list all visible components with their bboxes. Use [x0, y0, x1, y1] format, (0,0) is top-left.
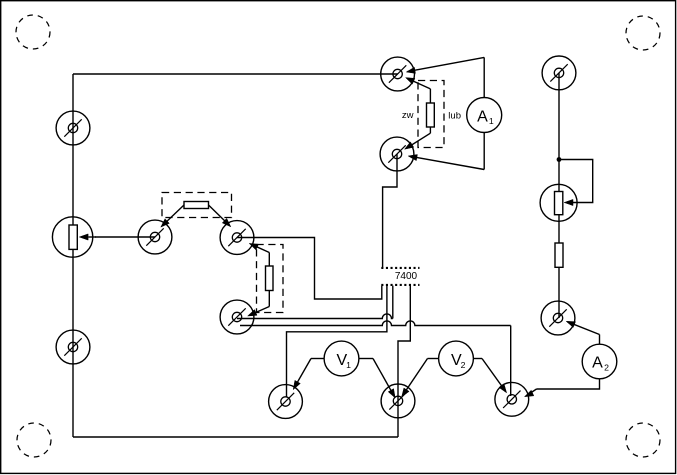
terminal J3: [138, 220, 172, 254]
resistor R1 (jumper): [184, 202, 209, 209]
resistor R3 zw: [427, 103, 435, 127]
svg-text:2: 2: [461, 360, 466, 370]
wire bottom bus: [73, 436, 398, 438]
trapezoid bottom line: [408, 155, 484, 170]
wire V1 right: [359, 359, 395, 398]
trapezoid right upper: [483, 57, 485, 97]
terminal J4: [220, 221, 254, 255]
mounting hole top-left: [16, 15, 50, 49]
wire V2 left: [402, 359, 439, 398]
resistor R2: [266, 266, 274, 291]
wire top bus: [73, 73, 398, 75]
lead R2 top: [249, 243, 269, 266]
svg-text:7400: 7400: [395, 271, 418, 282]
wire IC pin4 to J8: [398, 286, 410, 437]
wire IC pin2 to J7: [287, 286, 387, 398]
terminal J5: [220, 300, 254, 334]
terminal J2: [56, 330, 90, 364]
wire right bus upper: [558, 73, 560, 192]
ammeter A2: [582, 344, 617, 379]
lead R3 bottom: [405, 127, 431, 149]
svg-text:1: 1: [489, 116, 494, 126]
dashed box zw: [418, 81, 444, 148]
terminal J6b bottom: [380, 137, 414, 171]
IC U1 7400 bottom row: [381, 284, 419, 286]
IC U1 7400 top row: [381, 267, 419, 269]
terminal J7 bottom-left: [269, 385, 303, 419]
wire J5 to J9: [240, 321, 511, 396]
ammeter A1: [467, 98, 502, 133]
trapezoid top line: [406, 57, 484, 73]
wire J4 to IC pin1: [237, 238, 382, 300]
wire A2 to J9: [525, 379, 600, 397]
terminal J11 right bottom: [541, 301, 575, 335]
wire P2 to R4: [558, 215, 560, 243]
wire V2 right: [473, 359, 506, 393]
mounting hole top-right: [626, 16, 660, 50]
mounting hole bottom-right: [626, 423, 660, 457]
label zw: [402, 110, 414, 121]
lead R1 left: [161, 205, 184, 227]
terminal J1: [56, 111, 90, 145]
label lub: [448, 111, 461, 122]
wire left bus upper: [72, 74, 74, 225]
terminal J8 bottom-middle: [381, 384, 415, 418]
lead R2 bottom: [248, 291, 270, 317]
wire R4 to J11: [558, 267, 560, 318]
potentiometer P1: [52, 217, 92, 257]
label V1: [336, 352, 351, 370]
svg-text:1: 1: [346, 360, 351, 370]
label A1: [477, 108, 494, 126]
lead R3 top: [406, 78, 431, 103]
svg-text:2: 2: [604, 363, 609, 373]
wire J6b to IC pin0: [383, 154, 397, 268]
wire J11 to A2: [566, 321, 599, 344]
terminal J9 bottom-right: [495, 382, 529, 416]
lead R1 right: [209, 205, 231, 227]
wire wiper loop: [559, 160, 593, 203]
wiper arrow P1: [79, 234, 96, 240]
svg-text:lub: lub: [448, 111, 461, 122]
mounting hole bottom-left: [17, 423, 51, 457]
label V2: [451, 352, 466, 370]
dashed box jumper: [162, 193, 232, 218]
dashed box R2: [257, 245, 284, 313]
label A2: [592, 355, 609, 373]
voltmeter V1: [324, 341, 359, 376]
potentiometer P2: [540, 184, 577, 221]
wire V1 left: [293, 359, 324, 390]
wire J5 to IC pin3: [237, 286, 393, 319]
wire left bus lower: [72, 250, 74, 438]
svg-text:A: A: [592, 355, 603, 372]
trapezoid right lower: [483, 133, 485, 170]
wiper arrow P2: [564, 199, 573, 205]
svg-text:zw: zw: [402, 110, 414, 121]
resistor R4: [555, 243, 563, 267]
wire P1 wiper to J3: [95, 236, 155, 238]
junction node: [557, 157, 562, 162]
label 7400: [395, 271, 418, 282]
svg-text:A: A: [477, 108, 488, 125]
terminal J10 right top: [542, 56, 576, 90]
terminal J6 top: [381, 57, 415, 91]
voltmeter V2: [439, 341, 474, 376]
